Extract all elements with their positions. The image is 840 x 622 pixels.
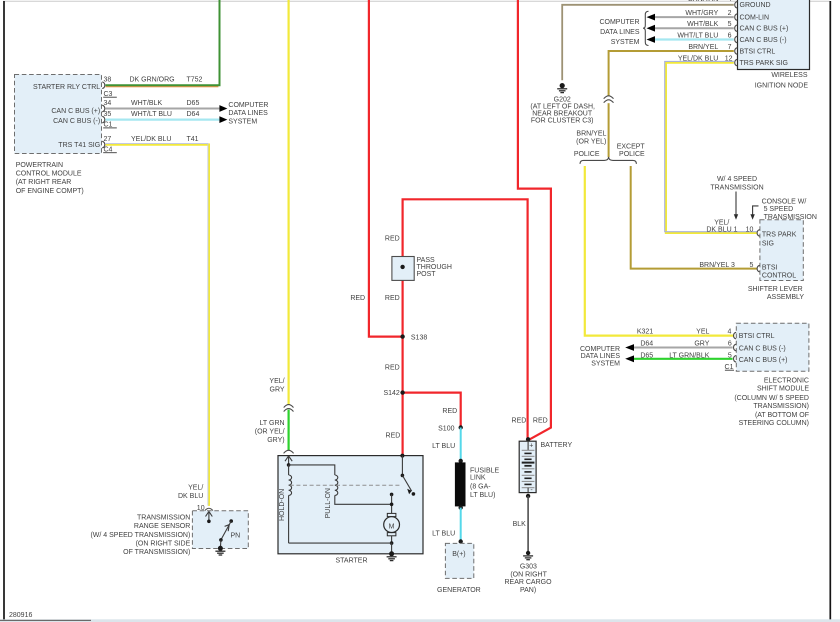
switch xyxy=(401,456,403,476)
svg-text:WHT/BLK: WHT/BLK xyxy=(687,21,718,28)
svg-text:STARTER: STARTER xyxy=(336,558,368,565)
svg-text:CAN C BUS (+): CAN C BUS (+) xyxy=(740,26,789,33)
svg-text:LT GRN: LT GRN xyxy=(260,420,285,427)
svg-text:OF ENGINE COMPT): OF ENGINE COMPT) xyxy=(16,188,84,195)
svg-text:LT BLU: LT BLU xyxy=(432,531,455,538)
generator box xyxy=(445,543,473,578)
powertrain control module box xyxy=(15,75,102,154)
svg-text:6: 6 xyxy=(728,340,732,347)
inline connector arcs xyxy=(284,405,293,408)
svg-text:6: 6 xyxy=(728,32,732,39)
ground G202 xyxy=(560,83,565,88)
svg-text:S100: S100 xyxy=(438,426,454,433)
svg-text:POLICE: POLICE xyxy=(619,151,645,158)
svg-text:GRY): GRY) xyxy=(267,437,284,444)
svg-text:CAN C BUS (-): CAN C BUS (-) xyxy=(53,118,100,125)
wireless ignition node box xyxy=(738,0,810,70)
wire YEL/DK BLU T41 xyxy=(106,145,209,506)
svg-text:D64: D64 xyxy=(187,111,200,118)
frame left border xyxy=(3,1,5,620)
svg-text:280916: 280916 xyxy=(9,612,32,619)
split brace xyxy=(580,157,636,164)
pin arc 34 xyxy=(102,105,105,112)
svg-text:35: 35 xyxy=(104,111,112,118)
wire WHT/BLK D65 xyxy=(106,108,220,110)
svg-text:RED: RED xyxy=(385,295,400,302)
svg-text:WHT/LT BLU: WHT/LT BLU xyxy=(131,111,172,118)
svg-text:GRY: GRY xyxy=(270,387,285,394)
svg-text:(COLUMN W/ 5 SPEED: (COLUMN W/ 5 SPEED xyxy=(734,395,809,402)
svg-text:PULL-ON: PULL-ON xyxy=(325,488,332,518)
svg-text:REAR CARGO: REAR CARGO xyxy=(504,579,552,586)
svg-text:BTSI CTRL: BTSI CTRL xyxy=(740,48,776,55)
pin GROUND xyxy=(735,2,738,9)
svg-text:GROUND: GROUND xyxy=(740,2,771,9)
svg-text:LT GRN/BLK: LT GRN/BLK xyxy=(669,352,710,359)
wire BLK xyxy=(527,496,529,551)
svg-text:CAN C BUS (-): CAN C BUS (-) xyxy=(740,37,787,44)
wire RED from top to S138 xyxy=(369,0,403,337)
svg-text:POWERTRAIN: POWERTRAIN xyxy=(16,162,63,169)
svg-text:(ON RIGHT: (ON RIGHT xyxy=(510,572,547,579)
svg-text:CAN C BUS (+): CAN C BUS (+) xyxy=(739,357,788,364)
svg-text:HOLD-ON: HOLD-ON xyxy=(279,489,286,521)
ground G303 xyxy=(526,551,530,555)
mechanical link dashed xyxy=(290,484,402,486)
arrow to computer data lines xyxy=(219,105,227,112)
wire LT GRN (OR YEL/GRY) xyxy=(288,410,290,451)
svg-text:M: M xyxy=(389,523,395,530)
wire LT GRN/BLK D65 xyxy=(634,358,733,360)
svg-text:GRY: GRY xyxy=(694,340,709,347)
svg-text:FOR CLUSTER C3): FOR CLUSTER C3) xyxy=(531,117,594,124)
svg-text:ASSEMBLY: ASSEMBLY xyxy=(767,294,805,301)
svg-text:RED: RED xyxy=(385,236,400,243)
svg-text:DATA LINES: DATA LINES xyxy=(581,353,621,360)
svg-text:T41: T41 xyxy=(187,136,199,143)
svg-text:OF TRANSMISSION): OF TRANSMISSION) xyxy=(123,549,190,556)
wire RED from top jog to battery xyxy=(518,0,551,440)
svg-text:W/ 4 SPEED: W/ 4 SPEED xyxy=(717,176,757,183)
svg-text:TRANSMISSION: TRANSMISSION xyxy=(710,184,763,191)
svg-text:BRN/YEL 3: BRN/YEL 3 xyxy=(699,262,735,269)
svg-text:SYSTEM: SYSTEM xyxy=(228,118,257,125)
svg-text:5: 5 xyxy=(749,262,753,269)
svg-text:BLK: BLK xyxy=(513,521,527,528)
wire LT BLU xyxy=(460,428,462,461)
svg-text:LINK: LINK xyxy=(470,474,486,481)
svg-text:T752: T752 xyxy=(187,77,203,84)
svg-text:G202: G202 xyxy=(554,96,571,103)
svg-text:TRS T41 SIG: TRS T41 SIG xyxy=(58,142,100,149)
svg-text:EXCEPT: EXCEPT xyxy=(617,143,646,150)
svg-text:5: 5 xyxy=(728,21,732,28)
svg-text:D65: D65 xyxy=(640,352,653,359)
svg-text:DK GRN/ORG: DK GRN/ORG xyxy=(130,77,175,84)
wire WHT/LT BLU 6 xyxy=(655,38,734,40)
svg-text:DK BLU 1: DK BLU 1 xyxy=(706,227,737,234)
svg-text:5 SPEED: 5 SPEED xyxy=(764,206,794,213)
svg-text:YEL/: YEL/ xyxy=(269,378,284,385)
svg-text:COMPUTER: COMPUTER xyxy=(228,102,268,109)
svg-text:SHIFTER LEVER: SHIFTER LEVER xyxy=(748,286,803,293)
svg-text:C1: C1 xyxy=(104,122,113,129)
svg-text:(AT BOTTOM OF: (AT BOTTOM OF xyxy=(755,412,809,419)
switch contact xyxy=(390,493,394,497)
svg-text:27: 27 xyxy=(104,136,112,143)
wire YEL/DK BLU WIN to shifter xyxy=(666,63,757,233)
svg-text:TRS PARK: TRS PARK xyxy=(762,232,797,239)
svg-text:38: 38 xyxy=(104,77,112,84)
pin terminal arrow xyxy=(208,512,210,522)
coil HOLD-ON xyxy=(288,465,290,475)
starter box xyxy=(278,456,423,554)
svg-text:YEL/: YEL/ xyxy=(188,485,203,492)
svg-text:SYSTEM: SYSTEM xyxy=(611,39,640,46)
svg-text:BTSI CTRL: BTSI CTRL xyxy=(739,333,775,340)
shifter lever assembly box xyxy=(760,220,803,281)
svg-text:10: 10 xyxy=(746,227,754,234)
svg-text:ELECTRONIC: ELECTRONIC xyxy=(764,378,809,385)
svg-text:DK BLU: DK BLU xyxy=(178,493,203,500)
battery xyxy=(519,441,536,492)
svg-text:CONSOLE W/: CONSOLE W/ xyxy=(762,198,807,205)
svg-text:34: 34 xyxy=(104,100,112,107)
svg-text:K321: K321 xyxy=(637,328,653,335)
svg-text:GENERATOR: GENERATOR xyxy=(437,587,481,594)
svg-text:COM-LIN: COM-LIN xyxy=(740,15,770,22)
svg-text:NEAR BREAKOUT: NEAR BREAKOUT xyxy=(532,110,593,117)
svg-text:RED: RED xyxy=(442,408,457,415)
wire YEL police to ESM xyxy=(585,166,734,336)
wire YEL/GRY xyxy=(288,0,290,405)
wire RED battery to pass-through to starter xyxy=(403,199,528,454)
svg-text:COMPUTER: COMPUTER xyxy=(580,346,620,353)
svg-text:D64: D64 xyxy=(640,340,653,347)
switch PN xyxy=(229,519,233,523)
svg-text:TRANSMISSION): TRANSMISSION) xyxy=(753,403,809,410)
wire WHT/GRY 2 xyxy=(655,16,734,18)
svg-text:BRN/YEL: BRN/YEL xyxy=(688,44,718,51)
svg-text:POST: POST xyxy=(417,271,437,278)
splice S138 xyxy=(400,334,404,338)
svg-text:CONTROL MODULE: CONTROL MODULE xyxy=(16,171,82,178)
svg-text:YEL/DK BLU: YEL/DK BLU xyxy=(131,136,171,143)
wire to pull-on coil xyxy=(289,465,335,475)
svg-text:(AT RIGHT REAR: (AT RIGHT REAR xyxy=(16,179,72,186)
svg-text:YEL: YEL xyxy=(696,328,709,335)
svg-text:POLICE: POLICE xyxy=(574,151,600,158)
battery - terminal dot xyxy=(526,494,530,498)
svg-text:DATA LINES: DATA LINES xyxy=(600,29,640,36)
svg-text:DATA LINES: DATA LINES xyxy=(228,110,268,117)
svg-text:STARTER RLY CTRL: STARTER RLY CTRL xyxy=(33,84,100,91)
svg-text:RED: RED xyxy=(533,418,548,425)
svg-text:CONTROL: CONTROL xyxy=(762,273,796,280)
pin arc 38 xyxy=(102,82,105,89)
svg-text:RED: RED xyxy=(386,433,401,440)
svg-text:4: 4 xyxy=(728,0,732,3)
svg-text:SHIFT MODULE: SHIFT MODULE xyxy=(757,386,809,393)
svg-text:PN: PN xyxy=(231,533,241,540)
svg-text:TRS PARK SIG: TRS PARK SIG xyxy=(740,60,789,67)
motor M xyxy=(387,513,396,516)
fusible link xyxy=(459,459,463,463)
splice S142 xyxy=(400,390,404,394)
svg-text:CAN C BUS (+): CAN C BUS (+) xyxy=(51,108,100,115)
ESM box xyxy=(736,323,809,371)
wire GRY D64 xyxy=(634,347,733,349)
svg-text:D65: D65 xyxy=(187,100,200,107)
svg-text:PAN): PAN) xyxy=(520,587,536,594)
svg-text:CAN C BUS (-): CAN C BUS (-) xyxy=(739,346,786,353)
transmission range sensor box xyxy=(192,511,248,549)
svg-text:LT BLU): LT BLU) xyxy=(470,492,495,499)
inline connector arcs at starter xyxy=(284,450,293,453)
svg-text:RANGE SENSOR: RANGE SENSOR xyxy=(134,523,190,530)
svg-text:BTSI: BTSI xyxy=(762,264,778,271)
svg-text:RED: RED xyxy=(385,364,400,371)
pin arc 35 xyxy=(102,116,105,123)
svg-text:RED: RED xyxy=(512,418,527,425)
wire BRN/TAN xyxy=(562,5,734,81)
svg-text:LT BLU: LT BLU xyxy=(432,443,455,450)
arrow to computer data lines xyxy=(219,116,227,123)
wire LT BLU xyxy=(460,508,462,542)
generator B(+) terminal xyxy=(459,539,463,543)
svg-text:S142: S142 xyxy=(383,390,399,397)
svg-text:(8 GA-: (8 GA- xyxy=(470,484,491,491)
svg-text:+: + xyxy=(529,442,533,449)
svg-text:(AT LEFT OF DASH,: (AT LEFT OF DASH, xyxy=(530,103,595,110)
svg-text:(OR YEL): (OR YEL) xyxy=(576,139,606,146)
svg-text:B(+): B(+) xyxy=(452,551,465,558)
bottom bar xyxy=(0,619,840,622)
frame top line xyxy=(3,0,830,2)
pin entry arc xyxy=(205,508,212,510)
svg-text:SIG: SIG xyxy=(762,240,774,247)
battery + terminal dot xyxy=(526,437,530,441)
wire BRN/YEL from WIN xyxy=(609,51,734,96)
wire BRN/YEL except police to shifter xyxy=(631,166,757,269)
frame right border xyxy=(829,1,831,620)
svg-text:FUSIBLE: FUSIBLE xyxy=(470,467,500,474)
svg-text:BRN/YEL: BRN/YEL xyxy=(576,131,606,138)
svg-text:RED: RED xyxy=(350,295,365,302)
svg-text:WHT/GRY: WHT/GRY xyxy=(685,10,718,17)
wire DK GRN/ORG T752 xyxy=(106,86,219,88)
svg-text:BRN/TAN: BRN/TAN xyxy=(688,0,718,3)
wire WHT/BLK 5 xyxy=(655,27,734,29)
svg-text:IGNITION NODE: IGNITION NODE xyxy=(755,82,809,89)
coil PULL-ON xyxy=(335,475,338,495)
svg-text:5: 5 xyxy=(728,352,732,359)
splice S100 xyxy=(459,425,463,429)
red entry dot xyxy=(400,454,404,458)
ground (starter) xyxy=(389,551,394,556)
svg-text:S138: S138 xyxy=(411,335,427,342)
wire RED S142 branch to S100 xyxy=(403,393,461,428)
svg-text:2: 2 xyxy=(728,10,732,17)
svg-text:4: 4 xyxy=(727,328,731,335)
svg-text:STEERING COLUMN): STEERING COLUMN) xyxy=(739,420,809,427)
svg-text:WHT/BLK: WHT/BLK xyxy=(131,100,162,107)
svg-text:BATTERY: BATTERY xyxy=(541,442,573,449)
svg-text:G303: G303 xyxy=(520,564,537,571)
ground (TRS) xyxy=(218,546,223,551)
bottom wire xyxy=(289,542,392,544)
svg-text:WHT/LT BLU: WHT/LT BLU xyxy=(677,32,718,39)
green entry arrow xyxy=(288,456,290,465)
pass through post xyxy=(392,257,414,281)
svg-text:TRANSMISSION: TRANSMISSION xyxy=(137,515,190,522)
brace computer data lines xyxy=(643,11,649,45)
svg-text:SYSTEM: SYSTEM xyxy=(591,360,620,367)
pin arc 27 xyxy=(102,141,105,148)
svg-text:7: 7 xyxy=(728,44,732,51)
svg-text:YEL/: YEL/ xyxy=(714,219,729,226)
svg-text:COMPUTER: COMPUTER xyxy=(599,19,639,26)
svg-text:WIRELESS: WIRELESS xyxy=(771,72,808,79)
wire WHT/LT BLU D64 xyxy=(106,118,220,120)
svg-text:(ON RIGHT SIDE: (ON RIGHT SIDE xyxy=(136,540,191,547)
svg-text:(W/ 4 SPEED TRANSMISSION): (W/ 4 SPEED TRANSMISSION) xyxy=(90,532,190,539)
svg-text:(OR YEL/: (OR YEL/ xyxy=(255,429,285,436)
